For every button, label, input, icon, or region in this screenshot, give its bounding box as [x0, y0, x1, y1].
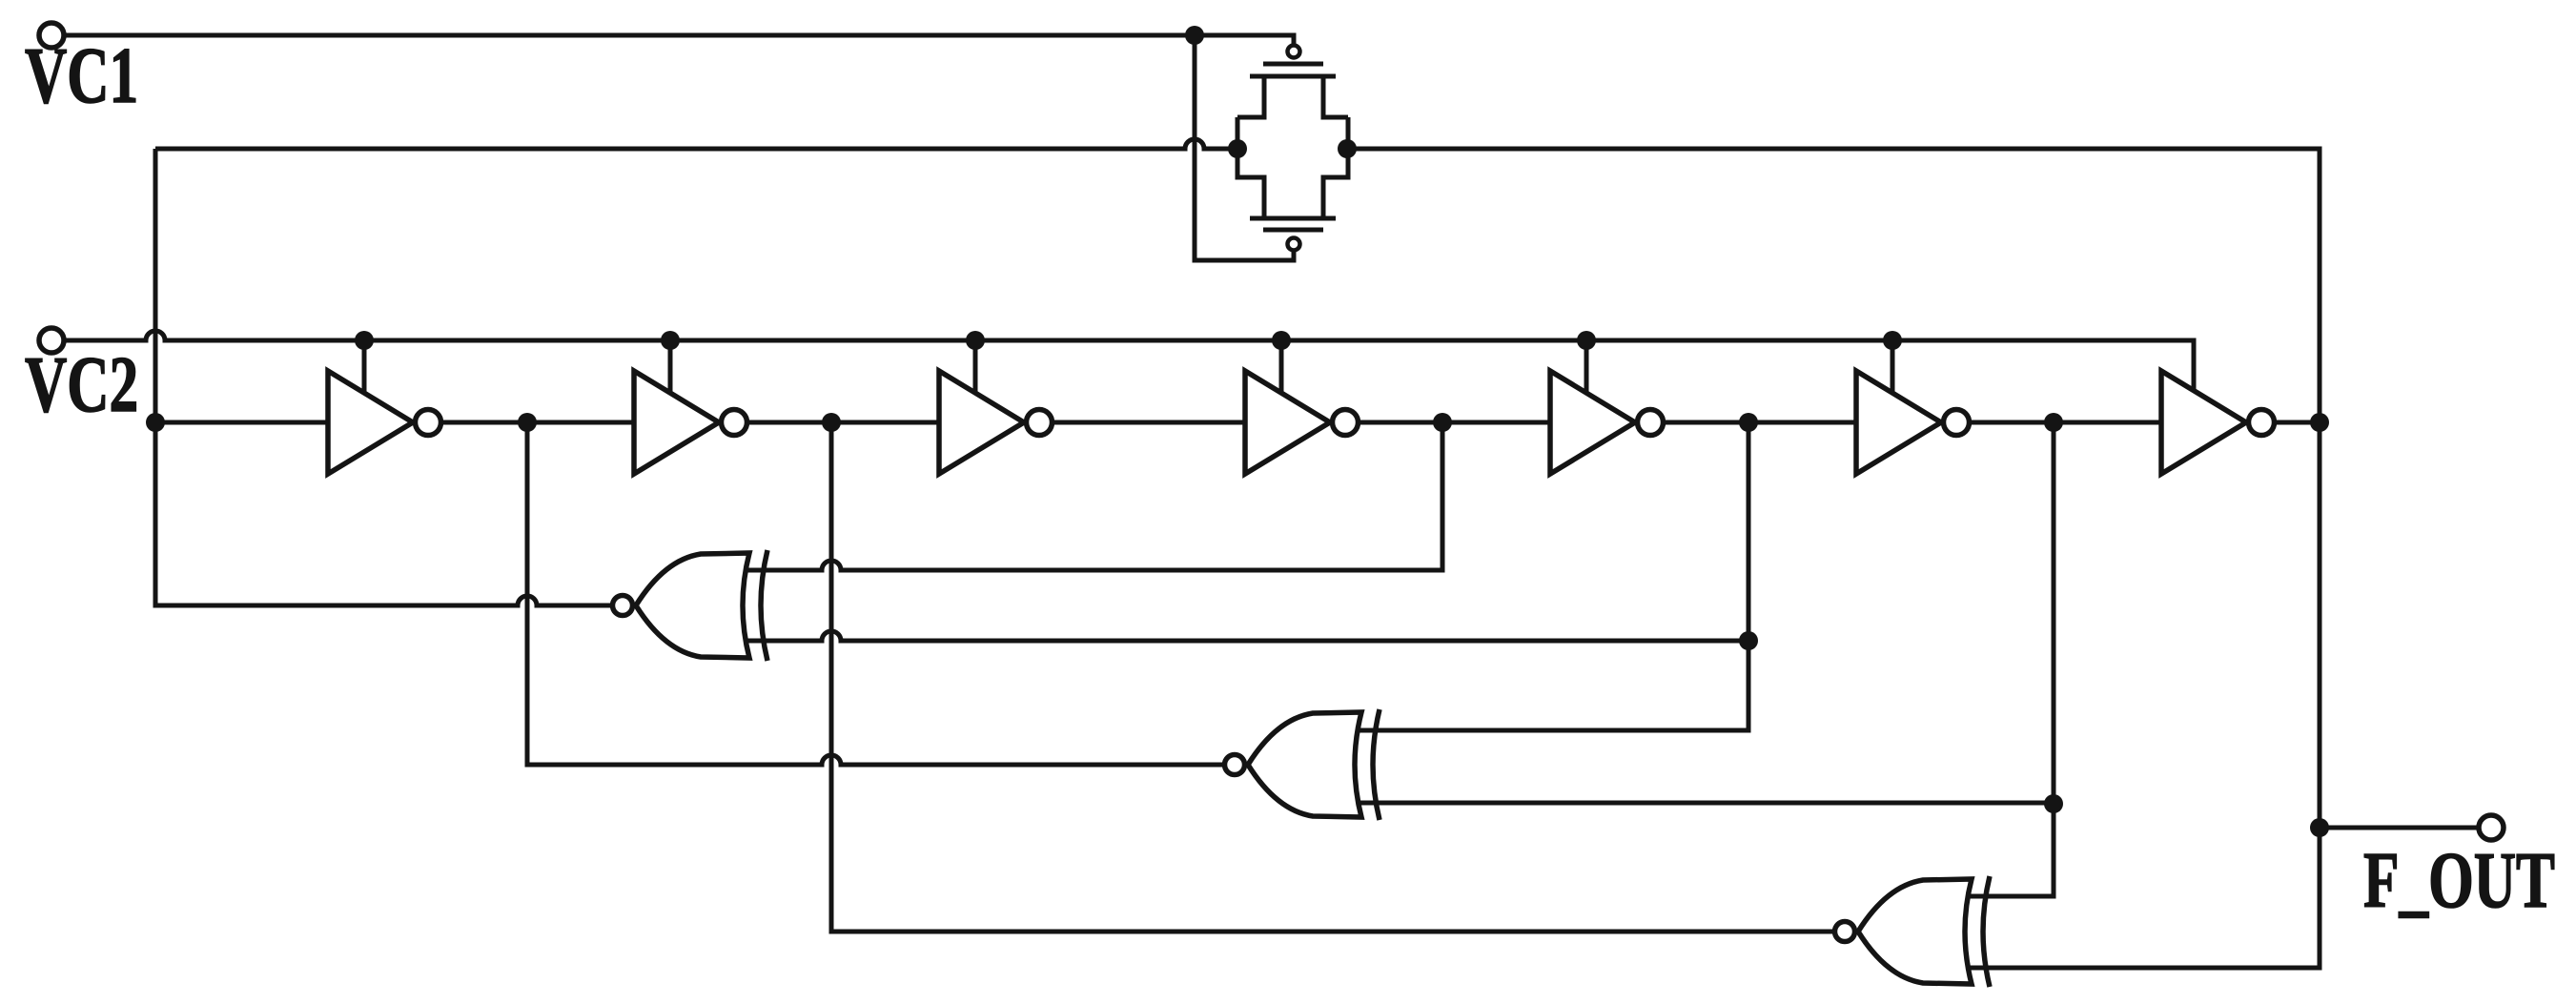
wire tap after U6 down to XNOR G3 top input	[1964, 413, 2063, 896]
inverter U5	[1550, 371, 1664, 474]
inverter U7	[2161, 371, 2275, 474]
wire XNOR G1 bottom input from node x=1834, hop at x=872	[742, 631, 1758, 650]
transistor Q1 PMOS source/drain	[1237, 76, 1348, 117]
wire inverter chain line (y=443)	[155, 420, 2320, 425]
supply stub inverter U2	[661, 331, 680, 393]
wire XNOR G2 bottom input from node x=2154	[1354, 794, 2063, 813]
supply stub inverter U1	[355, 331, 374, 393]
wire tap after U5 down to XNOR G2 top input	[1354, 413, 1758, 730]
node transmission gate left	[1228, 139, 1247, 158]
transistor Q1 PMOS gate and channel	[1250, 64, 1336, 76]
XNOR gate G2	[1225, 709, 1380, 820]
wire feedback rail left (y=156) with hop over x=1253	[155, 139, 1237, 149]
svg-text:F_OUT: F_OUT	[2363, 835, 2555, 925]
svg-text:VC2: VC2	[25, 339, 138, 429]
wire VC2 supply rail with hop over x=163	[66, 331, 2194, 391]
wire feedback rail right and down to XNOR G3 input (x=2433)	[1347, 149, 2320, 968]
wire tap after U1 down to XNOR G2 output, hop at x=872	[518, 413, 1235, 765]
XNOR gate G3	[1835, 876, 1991, 987]
supply stub inverter U5	[1577, 331, 1596, 393]
XNOR gate G1	[613, 550, 768, 661]
inverter U1	[328, 371, 441, 474]
svg-text:VC1: VC1	[25, 31, 138, 120]
junction F_OUT tap	[2310, 818, 2329, 837]
wire NMOS gate control (vertical x=1253)	[1195, 35, 1294, 260]
transistor Q2 NMOS channel and gate	[1250, 218, 1336, 230]
wire VC1 line	[66, 35, 1294, 44]
wire ring input vertical (x=163) down to XNOR G1 output, hop at x=553	[155, 149, 623, 605]
label F_OUT	[2363, 835, 2555, 925]
wire F_OUT	[2320, 826, 2478, 830]
terminal F_OUT	[2479, 815, 2504, 840]
junction chain input	[146, 413, 165, 432]
supply stub inverter U4	[1272, 331, 1291, 393]
label VC2	[25, 339, 138, 429]
transmission gate right arm	[1323, 117, 1348, 218]
terminal VC1	[39, 23, 64, 48]
transmission gate left arm	[1237, 117, 1264, 218]
node transmission gate right	[1338, 139, 1357, 158]
terminal VC2	[39, 328, 64, 353]
junction VC1/gate-control	[1185, 26, 1204, 45]
wire tap after U2 down to XNOR G3 output	[822, 413, 1845, 932]
inverter U6	[1856, 371, 1970, 474]
supply stub inverter U3	[966, 331, 985, 393]
transistor Q1 PMOS gate bubble	[1288, 46, 1300, 58]
supply stub inverter U6	[1883, 331, 1902, 393]
label VC1	[25, 31, 138, 120]
inverter U2	[634, 371, 747, 474]
wire tap after U4 to XNOR G1 top input, hop at x=872	[742, 413, 1452, 570]
transistor Q2 NMOS gate bubble	[1288, 238, 1300, 251]
inverter U4	[1245, 371, 1359, 474]
junction U7 output	[2310, 413, 2329, 432]
inverter U3	[939, 371, 1053, 474]
